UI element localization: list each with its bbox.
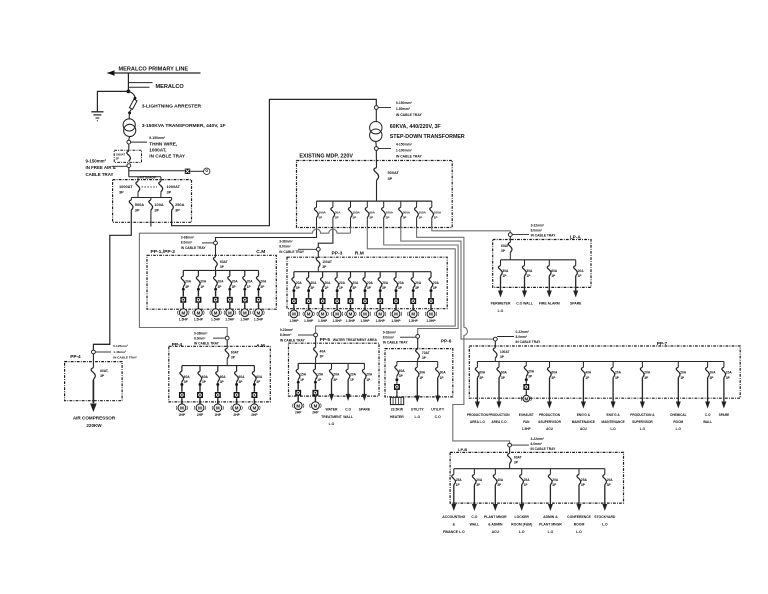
svg-text:60A: 60A <box>256 375 263 379</box>
svg-text:20A: 20A <box>366 373 373 377</box>
svg-text:3-38mm²: 3-38mm² <box>279 240 293 244</box>
svg-text:M: M <box>394 312 398 317</box>
svg-text:1.5HP: 1.5HP <box>179 318 189 322</box>
svg-text:PP-5: PP-5 <box>320 337 331 342</box>
svg-text:WATER TREATMENT AREA: WATER TREATMENT AREA <box>333 338 378 342</box>
svg-text:ROOM (F&M): ROOM (F&M) <box>511 523 532 527</box>
svg-text:8.0mm²: 8.0mm² <box>279 245 291 249</box>
svg-text:1.5HP: 1.5HP <box>225 318 235 322</box>
svg-text:8.0mm²: 8.0mm² <box>181 241 193 245</box>
svg-text:0-125mm²: 0-125mm² <box>113 344 127 348</box>
svg-text:3P: 3P <box>388 176 393 181</box>
svg-text:3P: 3P <box>335 216 339 220</box>
svg-text:WALL: WALL <box>703 420 712 424</box>
svg-text:1.5HP: 1.5HP <box>254 318 264 322</box>
svg-text:60AT,: 60AT, <box>100 369 108 373</box>
svg-text:C.O: C.O <box>471 515 477 519</box>
svg-text:C.O: C.O <box>345 408 351 412</box>
svg-text:3P: 3P <box>403 216 407 220</box>
svg-text:20A: 20A <box>726 371 733 375</box>
svg-text:23.5KW: 23.5KW <box>391 408 404 412</box>
svg-text:20A: 20A <box>296 281 303 285</box>
svg-text:100AT: 100AT <box>500 350 510 354</box>
svg-text:1.5HP: 1.5HP <box>360 319 370 323</box>
svg-text:IN CABLE TRAY: IN CABLE TRAY <box>396 113 423 117</box>
svg-text:60KVA, 440/220V, 3F: 60KVA, 440/220V, 3F <box>390 124 442 130</box>
svg-text:20A: 20A <box>339 281 346 285</box>
svg-text:L.O: L.O <box>498 309 504 313</box>
svg-text:C.O: C.O <box>435 415 441 419</box>
svg-text:3P: 3P <box>175 208 180 213</box>
svg-text:CHEMICAL: CHEMICAL <box>670 413 687 417</box>
svg-text:30A: 30A <box>419 371 426 375</box>
svg-text:20A: 20A <box>311 281 318 285</box>
svg-text:20A: 20A <box>644 371 651 375</box>
svg-text:20A: 20A <box>185 280 192 284</box>
svg-text:FINANCE L.O: FINANCE L.O <box>443 530 465 534</box>
svg-text:100A: 100A <box>419 211 427 215</box>
svg-text:60AT: 60AT <box>514 455 522 459</box>
svg-text:L.O: L.O <box>576 530 582 534</box>
svg-text:3P: 3P <box>167 190 172 195</box>
svg-text:ACU: ACU <box>546 427 554 431</box>
svg-text:8.0mm²: 8.0mm² <box>194 336 206 340</box>
svg-text:1.5HP: 1.5HP <box>426 319 436 323</box>
svg-text:AIR COMPRESSOR: AIR COMPRESSOR <box>73 416 116 421</box>
svg-text:20A: 20A <box>476 478 483 482</box>
svg-text:M: M <box>214 310 218 315</box>
svg-text:20A: 20A <box>615 371 622 375</box>
svg-text:1.5HP: 1.5HP <box>318 319 328 323</box>
svg-text:60A: 60A <box>399 369 406 373</box>
svg-text:20A: 20A <box>325 281 332 285</box>
svg-text:PRODUCTION: PRODUCTION <box>488 413 510 417</box>
svg-text:20A: 20A <box>350 373 357 377</box>
svg-text:UTILITY: UTILITY <box>431 408 445 412</box>
svg-text:60A: 60A <box>551 269 558 273</box>
svg-text:PP-3: PP-3 <box>332 251 343 257</box>
svg-text:HEATER: HEATER <box>390 415 404 419</box>
svg-text:&SUPERVISOR: &SUPERVISOR <box>538 420 562 424</box>
svg-text:M: M <box>524 396 528 401</box>
svg-text:ROOM: ROOM <box>673 420 683 424</box>
svg-text:L.O: L.O <box>602 523 608 527</box>
svg-text:ACCOUNTING: ACCOUNTING <box>442 515 465 519</box>
svg-text:ADMIN &: ADMIN & <box>543 515 558 519</box>
svg-text:20A: 20A <box>382 281 389 285</box>
svg-text:1000AT,: 1000AT, <box>149 148 166 153</box>
svg-text:30A: 30A <box>526 269 533 273</box>
svg-text:3-LIGHTNING ARRESTER: 3-LIGHTNING ARRESTER <box>142 103 202 109</box>
svg-text:60A: 60A <box>501 371 508 375</box>
svg-text:1.5HP: 1.5HP <box>333 319 343 323</box>
svg-text:LP-B: LP-B <box>458 447 467 452</box>
svg-text:M: M <box>197 310 201 315</box>
svg-text:IN CABLE TRAY: IN CABLE TRAY <box>194 342 220 346</box>
svg-text:IN CABLE TRAY: IN CABLE TRAY <box>113 356 138 360</box>
svg-text:20A: 20A <box>398 281 405 285</box>
svg-text:M: M <box>429 312 433 317</box>
svg-text:15A: 15A <box>317 373 324 377</box>
svg-text:1.5HP: 1.5HP <box>194 318 204 322</box>
svg-text:3P: 3P <box>116 157 119 161</box>
svg-text:IN CABLE TRAY: IN CABLE TRAY <box>280 338 306 342</box>
svg-text:SPARE: SPARE <box>719 413 730 417</box>
svg-text:3-22mm²: 3-22mm² <box>531 437 545 441</box>
svg-text:9-150mm²: 9-150mm² <box>149 136 166 140</box>
svg-text:3P: 3P <box>318 216 322 220</box>
svg-text:2HP: 2HP <box>215 413 222 417</box>
svg-text:0-18mm²: 0-18mm² <box>383 330 397 334</box>
svg-text:L.O: L.O <box>676 427 682 431</box>
svg-text:100A: 100A <box>154 202 163 207</box>
svg-text:20A: 20A <box>352 281 359 285</box>
svg-text:L.O: L.O <box>548 530 554 534</box>
svg-text:3P: 3P <box>386 216 390 220</box>
svg-text:STOCKYARD: STOCKYARD <box>594 515 616 519</box>
svg-text:3-38mm²: 3-38mm² <box>181 236 195 240</box>
svg-text:8.0mm²: 8.0mm² <box>531 228 543 232</box>
svg-text:MAINTENANCE: MAINTENANCE <box>601 420 624 424</box>
svg-text:100A: 100A <box>434 211 442 215</box>
svg-text:20A: 20A <box>232 280 239 284</box>
svg-text:0-22mm²: 0-22mm² <box>516 330 530 334</box>
svg-text:500A: 500A <box>135 202 144 207</box>
svg-text:M: M <box>335 312 339 317</box>
svg-text:R.M: R.M <box>355 251 364 257</box>
svg-text:60A: 60A <box>202 375 209 379</box>
svg-text:25A: 25A <box>456 478 463 482</box>
svg-text:M: M <box>292 312 296 317</box>
svg-text:M: M <box>198 406 202 411</box>
svg-text:1000AT: 1000AT <box>116 153 126 157</box>
svg-text:M: M <box>321 312 325 317</box>
svg-text:2HP: 2HP <box>251 413 258 417</box>
svg-text:M: M <box>411 312 415 317</box>
svg-text:3P: 3P <box>369 216 373 220</box>
svg-text:60AT: 60AT <box>501 244 509 248</box>
svg-text:8.0mm²: 8.0mm² <box>383 335 395 339</box>
svg-text:M: M <box>228 310 232 315</box>
svg-text:UTILITY: UTILITY <box>411 408 425 412</box>
svg-text:1.5HP: 1.5HP <box>346 319 356 323</box>
svg-text:2HP: 2HP <box>233 413 240 417</box>
svg-text:LP-A: LP-A <box>570 234 582 239</box>
svg-text:IN CABLE TRAY: IN CABLE TRAY <box>181 246 207 250</box>
svg-text:PRODUCTION: PRODUCTION <box>539 413 561 417</box>
svg-text:& ADMIN: & ADMIN <box>488 523 503 527</box>
svg-text:M: M <box>363 312 367 317</box>
svg-text:1-100mm²: 1-100mm² <box>396 148 413 152</box>
svg-text:EXISTING MDP, 220V: EXISTING MDP, 220V <box>299 154 353 160</box>
svg-text:20A: 20A <box>218 280 225 284</box>
svg-text:FAN: FAN <box>523 420 530 424</box>
svg-text:60A: 60A <box>184 375 191 379</box>
svg-text:40A: 40A <box>497 478 504 482</box>
svg-text:THHN WIRE,: THHN WIRE, <box>149 142 177 147</box>
svg-text:MERALCO PRIMARY LINE: MERALCO PRIMARY LINE <box>119 66 189 72</box>
svg-text:30A: 30A <box>440 371 447 375</box>
svg-text:L.O: L.O <box>610 427 616 431</box>
svg-text:PLANT MNGR: PLANT MNGR <box>539 523 562 527</box>
svg-text:1.5HP: 1.5HP <box>304 319 314 323</box>
svg-text:PRODUCTION &: PRODUCTION & <box>630 413 655 417</box>
svg-text:2HP: 2HP <box>295 411 302 415</box>
svg-text:MAINTENANCE: MAINTENANCE <box>572 420 595 424</box>
svg-text:250A: 250A <box>175 202 184 207</box>
svg-text:60AT: 60AT <box>220 260 228 264</box>
svg-text:PRODUCTION: PRODUCTION <box>467 413 489 417</box>
svg-text:PP-4: PP-4 <box>70 354 81 359</box>
svg-text:ENG'G &: ENG'G & <box>577 413 591 417</box>
svg-text:2HP: 2HP <box>197 413 204 417</box>
svg-text:C.O: C.O <box>705 413 711 417</box>
svg-text:40A: 40A <box>320 349 327 353</box>
svg-text:20A: 20A <box>433 281 440 285</box>
svg-text:IN CABLE TRAY: IN CABLE TRAY <box>149 154 186 159</box>
svg-text:SPARE: SPARE <box>359 408 371 412</box>
svg-text:70AT: 70AT <box>422 351 430 355</box>
svg-text:PP-1,/PP-2: PP-1,/PP-2 <box>151 249 176 255</box>
svg-text:L.O: L.O <box>640 427 646 431</box>
svg-text:PERIMETER: PERIMETER <box>491 302 511 306</box>
svg-text:8.0mm²: 8.0mm² <box>531 442 543 446</box>
svg-text:M: M <box>235 406 239 411</box>
svg-text:AREA C.O: AREA C.O <box>491 420 507 424</box>
svg-text:20A: 20A <box>333 373 340 377</box>
svg-text:IN CABLE TRAY: IN CABLE TRAY <box>396 155 423 159</box>
svg-text:M: M <box>253 406 257 411</box>
svg-text:20A: 20A <box>415 281 422 285</box>
svg-text:M: M <box>180 406 184 411</box>
svg-text:1000AT: 1000AT <box>167 184 181 189</box>
svg-text:3P: 3P <box>135 208 140 213</box>
svg-text:60A: 60A <box>551 371 558 375</box>
svg-text:9-150mm²: 9-150mm² <box>86 158 107 163</box>
svg-text:60A: 60A <box>239 375 246 379</box>
svg-text:8.0mm²: 8.0mm² <box>516 335 528 339</box>
svg-text:100A: 100A <box>352 211 360 215</box>
svg-text:60AT: 60AT <box>231 350 239 354</box>
svg-text:M: M <box>378 312 382 317</box>
svg-text:3P: 3P <box>119 190 124 195</box>
svg-text:M: M <box>296 403 300 408</box>
svg-text:3P: 3P <box>352 216 356 220</box>
svg-text:500AT: 500AT <box>388 170 400 175</box>
svg-text:4-150mm²: 4-150mm² <box>396 142 413 146</box>
svg-text:20A: 20A <box>247 280 254 284</box>
svg-text:20A: 20A <box>200 280 207 284</box>
svg-text:20A: 20A <box>680 371 687 375</box>
svg-text:IN CABLE TRAY: IN CABLE TRAY <box>531 234 557 238</box>
svg-text:M: M <box>307 312 311 317</box>
svg-text:3-22mm²: 3-22mm² <box>531 223 545 227</box>
svg-text:20A: 20A <box>528 369 535 373</box>
svg-text:2HP: 2HP <box>312 411 319 415</box>
svg-text:PP-6: PP-6 <box>441 338 452 343</box>
svg-text:30A: 30A <box>502 269 509 273</box>
svg-text:0-38mm²: 0-38mm² <box>194 331 208 335</box>
svg-text:3-150KVA TRANSFORMER, 440V, 1F: 3-150KVA TRANSFORMER, 440V, 1F <box>142 123 226 129</box>
svg-text:IN CABLE TRAY: IN CABLE TRAY <box>279 250 305 254</box>
svg-text:IN CABLE TRAY: IN CABLE TRAY <box>383 341 409 345</box>
svg-text:IN CABLE TRAY: IN CABLE TRAY <box>516 340 542 344</box>
svg-text:20A: 20A <box>367 281 374 285</box>
svg-text:ACU: ACU <box>580 427 588 431</box>
svg-text:20A: 20A <box>578 269 585 273</box>
svg-text:ROOM: ROOM <box>574 523 585 527</box>
svg-text:100A: 100A <box>318 211 326 215</box>
svg-text:CONFERENCE: CONFERENCE <box>567 515 591 519</box>
svg-text:SUPERVISOR: SUPERVISOR <box>632 420 653 424</box>
svg-text:25A: 25A <box>524 478 531 482</box>
svg-text:40A: 40A <box>585 371 592 375</box>
svg-text:1.5HP: 1.5HP <box>240 318 250 322</box>
svg-text:M: M <box>349 312 353 317</box>
svg-text:EXHAUST: EXHAUST <box>519 413 534 417</box>
svg-text:1.5HP: 1.5HP <box>409 319 419 323</box>
svg-text:1-48mm²: 1-48mm² <box>113 350 126 354</box>
svg-text:ENG'G &: ENG'G & <box>607 413 621 417</box>
svg-text:FIRE ALARM: FIRE ALARM <box>539 302 560 306</box>
svg-text:SPARE: SPARE <box>570 302 582 306</box>
svg-text:100AT: 100AT <box>322 260 332 264</box>
svg-text:100A: 100A <box>386 211 394 215</box>
svg-text:20A: 20A <box>552 478 559 482</box>
svg-text:0-22mm²: 0-22mm² <box>280 328 294 332</box>
svg-text:1P: 1P <box>419 216 423 220</box>
svg-text:1000AT: 1000AT <box>119 184 133 189</box>
svg-text:M: M <box>243 310 247 315</box>
svg-text:3P: 3P <box>154 208 159 213</box>
svg-text:A.M: A.M <box>256 343 265 348</box>
svg-text:1.5HP: 1.5HP <box>376 319 386 323</box>
svg-text:1.5HP: 1.5HP <box>391 319 401 323</box>
svg-text:TREATMENT: TREATMENT <box>321 415 343 419</box>
svg-text:25A: 25A <box>581 478 588 482</box>
svg-text:M: M <box>181 310 185 315</box>
svg-text:60A: 60A <box>369 211 375 215</box>
svg-text:220KW: 220KW <box>86 423 102 428</box>
svg-text:CABLE TRAY: CABLE TRAY <box>86 172 114 177</box>
svg-text:1.5HP: 1.5HP <box>289 319 299 323</box>
svg-text:20A: 20A <box>260 280 267 284</box>
svg-text:ACU: ACU <box>492 530 500 534</box>
svg-text:MERALCO: MERALCO <box>156 84 185 90</box>
svg-text:60A: 60A <box>479 371 486 375</box>
svg-text:0-150mm²: 0-150mm² <box>396 101 413 105</box>
svg-text:WATER: WATER <box>326 408 339 412</box>
svg-text:1.5HP: 1.5HP <box>522 427 531 431</box>
svg-text:L.O: L.O <box>414 415 420 419</box>
svg-text:M: M <box>257 310 261 315</box>
svg-text:15A: 15A <box>300 373 307 377</box>
svg-text:PLANT MNGR: PLANT MNGR <box>484 515 507 519</box>
svg-text:60A: 60A <box>220 375 227 379</box>
svg-text:1P: 1P <box>434 216 438 220</box>
svg-text:AREA L.O: AREA L.O <box>470 420 485 424</box>
svg-text:M: M <box>314 403 318 408</box>
svg-text:20A: 20A <box>607 478 614 482</box>
svg-text:STEP-DOWN TRANSFORMER: STEP-DOWN TRANSFORMER <box>390 134 465 140</box>
svg-text:8.0mm²: 8.0mm² <box>280 333 292 337</box>
svg-text:30A: 30A <box>335 211 341 215</box>
svg-text:IN CABLE TRAY: IN CABLE TRAY <box>531 447 557 451</box>
svg-text:WALL: WALL <box>470 523 480 527</box>
svg-text:M: M <box>216 406 220 411</box>
svg-text:WALL: WALL <box>343 415 353 419</box>
svg-text:C.O WALL: C.O WALL <box>516 302 533 306</box>
svg-text:1.5HP: 1.5HP <box>211 318 221 322</box>
svg-text:2HP: 2HP <box>179 413 186 417</box>
svg-text:LOCKER: LOCKER <box>515 515 530 519</box>
svg-text:PP-7: PP-7 <box>657 341 668 346</box>
svg-text:200A: 200A <box>403 211 411 215</box>
svg-text:1-80mm²: 1-80mm² <box>396 107 411 111</box>
svg-text:L.O: L.O <box>519 530 525 534</box>
svg-text:L.O: L.O <box>329 422 335 426</box>
svg-text:20A: 20A <box>710 371 717 375</box>
svg-text:C.M: C.M <box>256 249 265 255</box>
